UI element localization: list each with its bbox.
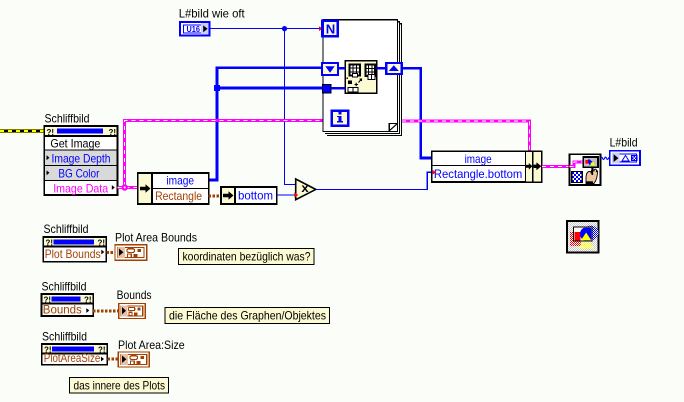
cluster indicator 3 [118, 352, 149, 367]
picture indicator L#bild [610, 151, 640, 166]
svg-text:Bounds: Bounds [43, 303, 82, 317]
property node 2 (Bounds) [42, 294, 94, 317]
svg-text:L#bild wie oft: L#bild wie oft [179, 7, 246, 21]
svg-text:Schliffbild: Schliffbild [45, 112, 90, 126]
svg-text:bottom: bottom [238, 188, 273, 202]
svg-text:N: N [326, 22, 336, 37]
magenta wire segment inside icon [569, 162, 583, 166]
i iteration terminal [332, 111, 349, 126]
svg-text:U16: U16 [187, 25, 201, 34]
screen glyph [583, 157, 598, 167]
multiply node [296, 179, 316, 200]
wire U16 to N terminal [211, 28, 321, 30]
svg-text:Get Image: Get Image [50, 136, 100, 150]
thick wire branch to tunnel [217, 87, 323, 90]
svg-text:L#bild: L#bild [610, 135, 638, 149]
svg-text:koordinaten bezüglich was?: koordinaten bezüglich was? [183, 250, 311, 264]
squiggle wire to indicator [601, 157, 610, 159]
shift register left (down arrow) [322, 63, 338, 75]
property node 3 (PlotAreaSize) [42, 344, 108, 365]
svg-text:Schliffbild: Schliffbild [42, 279, 87, 293]
invoke node Schliffbild [44, 126, 117, 195]
brown dotted wire Rectangle to unbundle2 [209, 195, 221, 198]
wire: shift reg to subVI [338, 67, 345, 70]
thick wire: right shift reg to bundle node [402, 68, 432, 158]
free label die Fläche des Graphen/Objektes [165, 308, 329, 324]
svg-text:das innere des Plots: das innere des Plots [74, 379, 166, 393]
wire: tunnel to subVI [331, 87, 345, 90]
dotted wire to indicator 1 [106, 251, 115, 254]
svg-text:Rectangle.bottom: Rectangle.bottom [434, 167, 522, 181]
wire bottom to multiply [277, 194, 296, 196]
unbundle by name node (image / Rectangle) [138, 173, 209, 204]
thick wire: unbundle image output up and to shift register [209, 68, 322, 180]
checkered square [572, 172, 582, 183]
Draw Flattened Pixmap VI icon [569, 154, 600, 185]
wire junction [282, 26, 287, 31]
dotted wire to indicator 3 [107, 358, 118, 361]
property node 1 (Plot Bounds) [43, 237, 106, 262]
free label das innere des Plots [70, 378, 169, 394]
svg-text:Schliffbild: Schliffbild [42, 329, 87, 343]
svg-text:Image Depth: Image Depth [52, 151, 111, 165]
magenta junction [122, 184, 128, 190]
svg-text:PlotAreaSize: PlotAreaSize [44, 351, 101, 365]
for-loop / stacked frame structure [323, 20, 402, 136]
numeric control U16 (L#bild wie oft) [180, 22, 210, 36]
grid glyph top-left [350, 65, 361, 76]
coercion dot bundle input [433, 170, 437, 174]
magenta wire bundle to pixmap icon [542, 165, 570, 168]
free label koordinaten bezüglich was? [179, 249, 315, 265]
svg-text:?!: ?! [46, 238, 54, 247]
dotted wire to indicator 2 [93, 309, 119, 312]
grid glyph top-right [366, 65, 376, 77]
wire junction [214, 85, 220, 91]
bottom cells [348, 88, 353, 93]
shift register right (up arrow) [386, 63, 402, 74]
coercion dot multiply [294, 193, 298, 198]
svg-text:Plot Area Bounds: Plot Area Bounds [115, 230, 197, 244]
N count terminal [323, 21, 338, 37]
tunnel (blue square) [323, 84, 332, 93]
svg-text:?!: ?! [84, 295, 92, 304]
wire multiply output to bundle [316, 172, 432, 189]
wire vertical to multiply [285, 29, 297, 185]
small black square [348, 81, 352, 85]
magenta wire: Image Data to unbundle [118, 186, 139, 189]
wire: subVI to right shift reg [377, 67, 387, 70]
dog-ear fold [389, 124, 397, 132]
picture constant icon (bottom right) [567, 221, 599, 252]
svg-text:?!: ?! [109, 128, 117, 137]
svg-text:image: image [465, 152, 492, 166]
cluster indicator 2 [119, 304, 146, 319]
cluster indicator 1 [115, 245, 147, 260]
magenta wire: loop right to bundle [402, 121, 530, 152]
svg-text:Bounds: Bounds [117, 288, 152, 302]
svg-text:Image Data: Image Data [53, 181, 108, 195]
svg-text:BG Color: BG Color [58, 166, 99, 180]
subVI icon (array function) [345, 61, 376, 93]
coercion dot at N [319, 26, 323, 31]
svg-text:die Fläche des Graphen/Objekte: die Fläche des Graphen/Objektes [169, 309, 326, 323]
plus-arrow glyph [355, 79, 362, 86]
svg-text:x: x [301, 181, 309, 195]
refnum wire (yellow/black dashed) [0, 129, 44, 133]
svg-text:Plot Bounds: Plot Bounds [45, 247, 101, 261]
svg-text:Schliffbild: Schliffbild [44, 222, 89, 236]
magenta wire: branch up and right to loop [125, 121, 323, 186]
bundle by name node (image / Rectangle.bottom) [432, 151, 542, 182]
svg-text:Rectangle: Rectangle [155, 189, 202, 203]
hand with pen [586, 169, 598, 183]
svg-text:image: image [166, 174, 194, 188]
svg-text:?!: ?! [98, 238, 106, 247]
svg-text:Plot Area:Size: Plot Area:Size [118, 338, 185, 352]
unbundle by name node 2 (bottom) [221, 187, 277, 204]
